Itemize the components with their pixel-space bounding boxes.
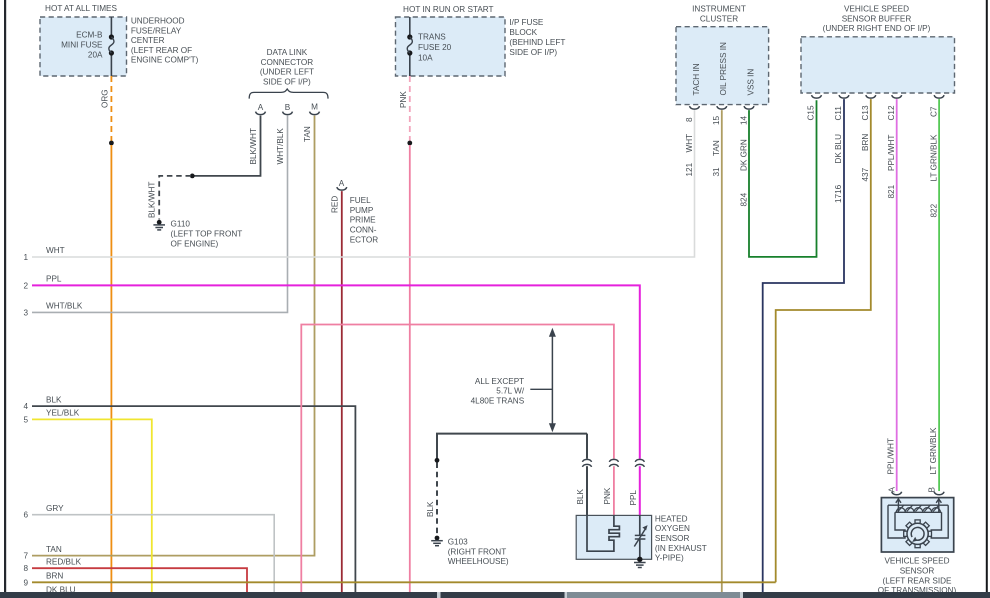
svg-text:(UNDER RIGHT END OF I/P): (UNDER RIGHT END OF I/P): [823, 24, 931, 33]
svg-text:YEL/BLK: YEL/BLK: [46, 409, 80, 418]
cluster pin 8 connector: [690, 106, 700, 109]
svg-text:437: 437: [861, 167, 870, 181]
svg-text:SIDE OF I/P): SIDE OF I/P): [509, 48, 557, 57]
svg-text:BLK/WHT: BLK/WHT: [147, 182, 156, 218]
svg-text:BLK: BLK: [426, 501, 435, 517]
svg-text:ENGINE COMP'T): ENGINE COMP'T): [131, 56, 199, 65]
svg-text:8: 8: [685, 117, 694, 122]
svg-text:DK GRN: DK GRN: [739, 139, 748, 171]
svg-text:A: A: [339, 179, 345, 188]
svg-text:CONNECTOR: CONNECTOR: [261, 58, 314, 67]
svg-text:(LEFT TOP FRONT: (LEFT TOP FRONT: [171, 229, 243, 238]
svg-text:LT GRN/BLK: LT GRN/BLK: [929, 427, 938, 475]
svg-text:BLOCK: BLOCK: [509, 28, 537, 37]
svg-text:TRANS: TRANS: [418, 33, 446, 42]
svg-text:WHT: WHT: [46, 246, 65, 255]
wire BRN circuit 437: buffer C13 joins circuit 9: [776, 99, 871, 582]
ground G103: [435, 536, 440, 541]
wire RED from fuel pump prime connector: [341, 191, 343, 592]
svg-text:SENSOR: SENSOR: [900, 567, 935, 576]
buffer pin C11 connector: [839, 95, 849, 98]
wire BLK/WHT from DLC pin A: [194, 116, 261, 176]
inline connector on BLK: [582, 459, 591, 462]
wire PNK: lower net to heated O2 sensor: [301, 325, 614, 593]
svg-text:ECM-B: ECM-B: [76, 31, 103, 40]
ground G110: [157, 220, 162, 225]
svg-text:31: 31: [712, 167, 721, 177]
svg-text:3: 3: [23, 308, 28, 317]
svg-text:2: 2: [23, 281, 28, 290]
svg-text:INSTRUMENT: INSTRUMENT: [692, 5, 746, 14]
buffer pin C12 connector: [892, 95, 902, 98]
VSS reluctor gear: [915, 520, 920, 523]
svg-text:PPL/WHT: PPL/WHT: [886, 438, 895, 474]
svg-text:TAN: TAN: [46, 545, 62, 554]
svg-text:BRN: BRN: [861, 134, 870, 151]
svg-text:15: 15: [712, 115, 721, 125]
wire PNK from TRANS fuse (dashed above splice): [409, 76, 411, 141]
wire WHT/BLK: DLC pin B to left edge (circuit 3): [32, 116, 288, 313]
svg-text:OXYGEN: OXYGEN: [655, 524, 690, 533]
svg-text:HOT IN RUN OR START: HOT IN RUN OR START: [403, 5, 494, 14]
wire YEL/BLK circuit 5: [32, 419, 152, 592]
wire DK BLU circuit 10 (under toolbar): [32, 595, 763, 597]
svg-text:G110: G110: [171, 219, 191, 228]
splice on BLK/WHT: [190, 174, 195, 179]
svg-text:8: 8: [23, 564, 28, 573]
svg-text:BLK/WHT: BLK/WHT: [249, 128, 258, 164]
brace over DLC pins: [249, 89, 328, 99]
splice on PNK wire: [407, 141, 412, 146]
svg-text:WHT/BLK: WHT/BLK: [46, 302, 83, 311]
splice on BLK ground wire: [435, 458, 440, 463]
svg-text:121: 121: [685, 162, 694, 176]
svg-text:G103: G103: [448, 538, 468, 547]
svg-text:BLK: BLK: [576, 488, 585, 504]
svg-text:(LEFT REAR OF: (LEFT REAR OF: [131, 46, 192, 55]
svg-text:FUSE/RELAY: FUSE/RELAY: [131, 26, 182, 35]
svg-text:OF ENGINE): OF ENGINE): [171, 239, 219, 248]
svg-text:M: M: [311, 102, 318, 111]
buffer pin C13 connector: [866, 95, 876, 98]
svg-text:(LEFT REAR SIDE: (LEFT REAR SIDE: [882, 576, 952, 585]
svg-text:FUEL: FUEL: [350, 196, 371, 205]
svg-text:10A: 10A: [418, 53, 433, 62]
O2 sensor ground: [637, 557, 642, 562]
wire DK BLU circuit 1716: buffer C11 to bottom circuit 10: [763, 99, 844, 592]
svg-text:CONN-: CONN-: [350, 226, 377, 235]
svg-text:TAN: TAN: [712, 140, 721, 156]
svg-text:20A: 20A: [88, 51, 103, 60]
svg-text:SENSOR: SENSOR: [655, 534, 690, 543]
wire BLK from O2 sensor to G103: [437, 434, 587, 459]
svg-text:MINI FUSE: MINI FUSE: [61, 40, 103, 49]
svg-text:1716: 1716: [834, 184, 843, 203]
wire GRY circuit 6: [32, 515, 274, 592]
right window border: [986, 0, 988, 598]
wire BLK/WHT dashed to G110: [159, 176, 191, 220]
svg-text:BRN: BRN: [46, 572, 63, 581]
svg-text:WHEELHOUSE): WHEELHOUSE): [448, 557, 509, 566]
svg-text:WHT: WHT: [685, 134, 694, 153]
svg-text:SENSOR BUFFER: SENSOR BUFFER: [842, 14, 912, 23]
splice on ORG wire: [109, 141, 114, 146]
wire RED/BLK circuit 8: [32, 568, 247, 592]
svg-text:VEHICLE SPEED: VEHICLE SPEED: [844, 5, 909, 14]
svg-text:ALL EXCEPT: ALL EXCEPT: [475, 377, 524, 386]
svg-text:CENTER: CENTER: [131, 36, 165, 45]
svg-text:PNK: PNK: [603, 487, 612, 504]
fuse box: underhood fuse/relay center: [40, 17, 127, 76]
buffer pin C7 connector: [934, 95, 944, 98]
svg-text:4: 4: [23, 402, 28, 411]
svg-text:FUSE 20: FUSE 20: [418, 43, 452, 52]
svg-text:OIL PRESS IN: OIL PRESS IN: [719, 42, 728, 95]
svg-text:CLUSTER: CLUSTER: [700, 14, 738, 23]
wire ORG from ECM-B fuse (dashed above splice): [110, 76, 112, 141]
left window border: [4, 0, 6, 598]
wire PPL/WHT circuit 821: buffer C12 to speed sensor A: [896, 99, 898, 491]
svg-text:Y-PIPE): Y-PIPE): [655, 554, 684, 563]
svg-text:(BEHIND LEFT: (BEHIND LEFT: [509, 38, 565, 47]
svg-text:TACH IN: TACH IN: [692, 63, 701, 95]
svg-text:822: 822: [929, 203, 938, 217]
component: heated oxygen sensor: [576, 515, 651, 559]
svg-text:HOT AT ALL TIMES: HOT AT ALL TIMES: [45, 4, 117, 13]
svg-text:5.7L W/: 5.7L W/: [496, 387, 525, 396]
svg-text:PUMP: PUMP: [350, 206, 374, 215]
O2 heater element: [587, 515, 619, 551]
svg-text:VEHICLE SPEED: VEHICLE SPEED: [884, 557, 949, 566]
wire PPL circuit 2 to heated O2 sensor: [32, 285, 640, 458]
svg-text:1: 1: [23, 253, 28, 262]
svg-text:(RIGHT FRONT: (RIGHT FRONT: [448, 547, 507, 556]
svg-text:I/P FUSE: I/P FUSE: [509, 18, 544, 27]
svg-text:BLK: BLK: [46, 395, 62, 404]
cluster pin 14 connector: [744, 106, 754, 109]
svg-text:DATA LINK: DATA LINK: [267, 48, 308, 57]
svg-text:(UNDER LEFT: (UNDER LEFT: [260, 68, 314, 77]
wire TAN circuit 31: oil press in down to bottom: [721, 110, 723, 592]
svg-text:C7: C7: [929, 106, 938, 117]
wire DK GRN circuit 824: VSS IN to buffer C15: [749, 100, 817, 257]
fuse box: I/P fuse block: [396, 17, 506, 76]
svg-text:B: B: [928, 487, 937, 493]
inline connector on PPL: [635, 459, 644, 462]
svg-text:C11: C11: [834, 106, 843, 121]
svg-text:(IN EXHAUST: (IN EXHAUST: [655, 544, 707, 553]
svg-text:C12: C12: [887, 105, 896, 120]
svg-text:A: A: [258, 103, 264, 112]
fuse TRANS FUSE 20 10A: [409, 17, 411, 36]
wire BLK circuit 4 down at right end: [32, 406, 355, 592]
svg-text:PRIME: PRIME: [350, 216, 376, 225]
svg-text:SIDE OF I/P): SIDE OF I/P): [263, 77, 311, 86]
svg-text:9: 9: [23, 578, 28, 587]
svg-text:RED/BLK: RED/BLK: [46, 557, 82, 566]
svg-text:UNDERHOOD: UNDERHOOD: [131, 17, 185, 26]
svg-text:824: 824: [739, 192, 748, 206]
svg-text:DK BLU: DK BLU: [834, 134, 843, 164]
svg-text:PPL: PPL: [629, 490, 638, 506]
svg-text:PNK: PNK: [399, 91, 408, 108]
wire BLK into O2 sensor: [586, 434, 588, 459]
svg-text:RED: RED: [331, 196, 340, 213]
svg-text:C13: C13: [861, 105, 870, 120]
buffer pin C15 connector: [812, 95, 822, 98]
svg-text:LT GRN/BLK: LT GRN/BLK: [929, 134, 938, 182]
cluster pin 15 connector: [717, 106, 727, 109]
O2 sensing element (variable): [639, 515, 641, 535]
wire LT GRN/BLK circuit 822: buffer C7 to speed sensor B: [938, 99, 940, 491]
svg-text:ORG: ORG: [101, 89, 110, 108]
VSS internal pickup coil and yoke: [888, 498, 948, 538]
inline connector on PNK: [609, 459, 618, 462]
svg-text:HEATED: HEATED: [655, 514, 688, 523]
svg-text:821: 821: [887, 184, 896, 198]
svg-text:6: 6: [23, 511, 28, 520]
svg-text:PPL/WHT: PPL/WHT: [887, 135, 896, 171]
svg-text:C15: C15: [807, 105, 816, 120]
svg-text:4L80E TRANS: 4L80E TRANS: [471, 396, 525, 405]
svg-text:B: B: [285, 103, 291, 112]
svg-text:14: 14: [739, 115, 748, 125]
fuse ECM-B MINI FUSE 20A: [110, 17, 112, 36]
svg-text:PPL: PPL: [46, 275, 62, 284]
wire TAN: DLC pin M down to circuit 7: [32, 116, 315, 556]
svg-text:GRY: GRY: [46, 504, 64, 513]
wire WHT circuit 121: tach in to circuit 1: [32, 110, 695, 257]
bottom toolbar/scrollbar: [0, 592, 990, 598]
svg-text:TAN: TAN: [303, 126, 312, 142]
svg-text:7: 7: [23, 552, 28, 561]
svg-text:ECTOR: ECTOR: [350, 235, 379, 244]
svg-text:VSS IN: VSS IN: [746, 69, 755, 96]
wire BRN circuit 9: [32, 581, 776, 583]
svg-text:WHT/BLK: WHT/BLK: [276, 128, 285, 165]
svg-text:5: 5: [23, 415, 28, 424]
